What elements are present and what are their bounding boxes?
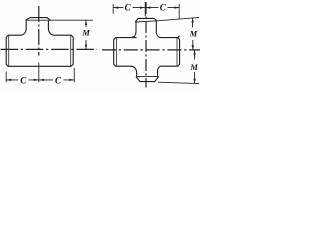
svg-text:C: C — [125, 3, 132, 13]
dimension C left arrowheads — [6, 79, 38, 81]
dimension C left shaft — [6, 79, 38, 81]
dimension C right shaft — [39, 79, 74, 81]
bottom M extension line — [158, 82, 199, 83]
dimension M upper (cross) shaft — [192, 18, 194, 50]
svg-text:C: C — [160, 3, 167, 13]
horizontal centerline (tee body axis) — [1, 48, 98, 50]
tee left end band — [8, 35, 10, 66]
horizontal centerline (cross body axis) — [102, 49, 200, 51]
dimension M (left figure) shaft — [85, 20, 87, 49]
svg-text:C: C — [55, 76, 62, 86]
cross left end band — [115, 38, 117, 66]
extension line center (top C dim) — [144, 2, 146, 16]
cross right end band — [176, 38, 178, 66]
svg-text:C: C — [20, 76, 27, 86]
cross bottom branch face with chamfers — [136, 77, 159, 82]
vertical centerline (cross branch axis) — [145, 2, 147, 88]
extension line branch center (C dim) — [38, 63, 40, 83]
cross top branch face with chamfers — [135, 18, 157, 22]
dimension M upper arrowheads — [191, 18, 194, 50]
dimension M arrowheads — [85, 20, 87, 49]
dimension M lower (cross) shaft — [194, 50, 196, 83]
svg-text:M: M — [189, 30, 198, 39]
dimension C top-right arrowheads — [146, 6, 179, 8]
dimension C right arrowheads — [39, 79, 74, 81]
dimension C top-left shaft — [114, 7, 145, 9]
extension line right end (top C dim) — [178, 4, 180, 19]
vertical centerline (tee branch axis) — [38, 6, 40, 56]
dimension C top-left arrowheads — [114, 6, 145, 8]
extension line left end (top C dim) — [112, 4, 114, 14]
cross top branch band + M extension line — [135, 17, 199, 22]
svg-text:M: M — [81, 29, 90, 38]
extension line right end (C dim) — [73, 68, 75, 82]
tee body + branch outline — [6, 20, 73, 66]
dimension C top-right shaft — [146, 7, 179, 9]
svg-text:M: M — [189, 63, 198, 72]
dimension M lower arrowheads — [193, 50, 195, 84]
tee branch top face with chamfers — [26, 18, 51, 21]
extension line left end (C dim) — [5, 72, 7, 83]
cross bottom branch band + M extension line — [136, 76, 159, 78]
tee branch band line + M extension line — [26, 19, 93, 21]
cross body + branches outline — [114, 21, 180, 77]
tee right end band — [70, 35, 72, 66]
